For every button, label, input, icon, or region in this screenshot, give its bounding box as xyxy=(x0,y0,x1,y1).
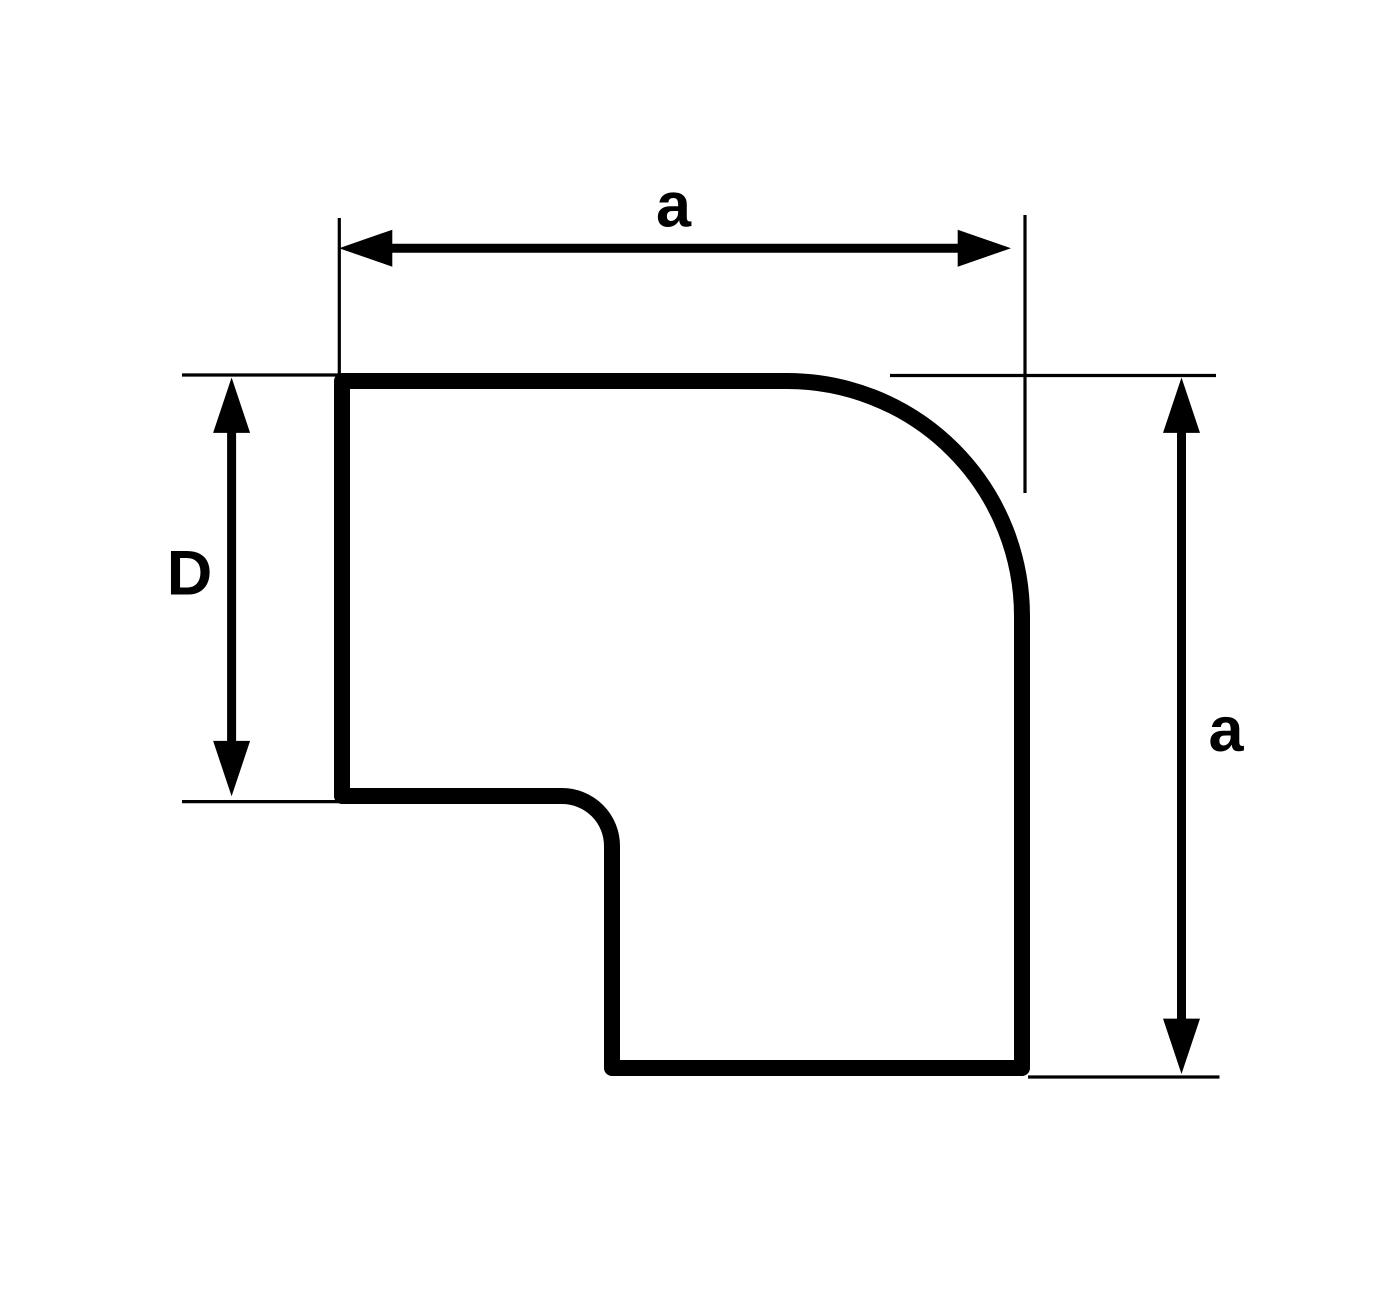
arrowhead D up xyxy=(213,378,250,433)
extension line D bottom horizontal xyxy=(182,800,340,803)
arrowhead D down xyxy=(213,741,250,796)
extension line right-bottom horizontal xyxy=(1028,1075,1220,1078)
extension line top-left vertical xyxy=(338,218,341,376)
arrowhead a right down xyxy=(1163,1019,1200,1074)
dimension line a top shaft xyxy=(388,244,960,253)
elbow body outline xyxy=(342,381,1022,1068)
svg-text:D: D xyxy=(167,539,213,609)
dimension line a right shaft xyxy=(1177,430,1186,1021)
arrowhead a right up xyxy=(1163,378,1200,433)
extension line D top horizontal xyxy=(182,373,341,376)
extension line right-top horizontal xyxy=(890,374,1216,377)
arrowhead a top right xyxy=(958,230,1011,267)
extension line top-right vertical xyxy=(1023,215,1026,493)
dimension line D shaft xyxy=(227,430,236,744)
svg-text:a: a xyxy=(656,170,692,240)
svg-text:a: a xyxy=(1208,695,1244,765)
arrowhead a top left xyxy=(339,230,392,267)
